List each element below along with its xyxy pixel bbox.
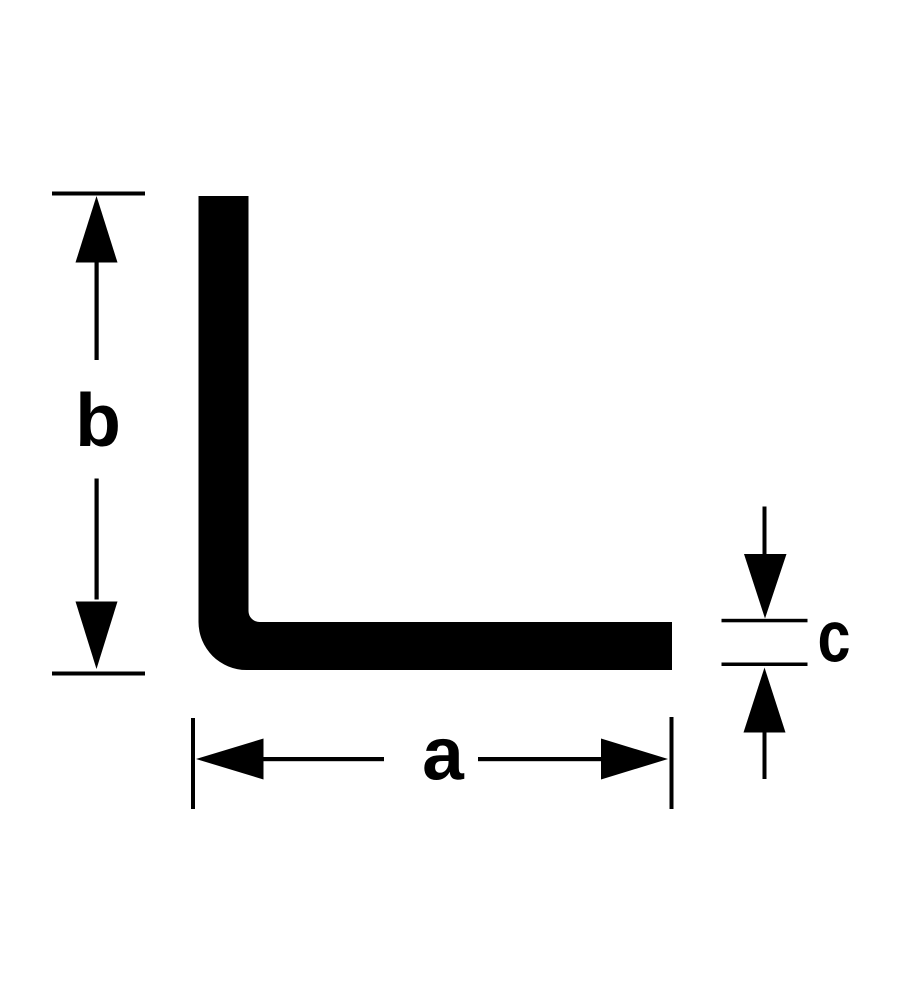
dimension b lower line segment [95, 479, 99, 600]
dimension a right extension line [670, 717, 674, 809]
dimension c upper line segment [763, 507, 767, 555]
dimension a right arrowhead [601, 739, 668, 780]
dimension c down arrowhead [744, 554, 787, 619]
dimension c lower tick line [722, 663, 808, 667]
dimension b bottom extension line [52, 672, 145, 676]
dimension c up arrowhead [744, 668, 786, 733]
dimension c lower line segment [763, 733, 767, 780]
dimension a left arrowhead [196, 739, 264, 780]
svg-text:a: a [422, 712, 465, 796]
svg-text:b: b [75, 378, 121, 462]
dimension b up arrowhead [76, 196, 118, 263]
dimension a left line segment [264, 757, 385, 761]
dimension b down arrowhead [76, 602, 118, 670]
dimension c upper tick line [722, 619, 808, 623]
L-profile angle body [199, 196, 673, 670]
dimension b top extension line [52, 192, 145, 196]
svg-text:c: c [818, 598, 851, 678]
dimension a right line segment [478, 757, 601, 761]
dimension b upper line segment [95, 263, 99, 361]
dimension a left extension line [191, 718, 195, 809]
